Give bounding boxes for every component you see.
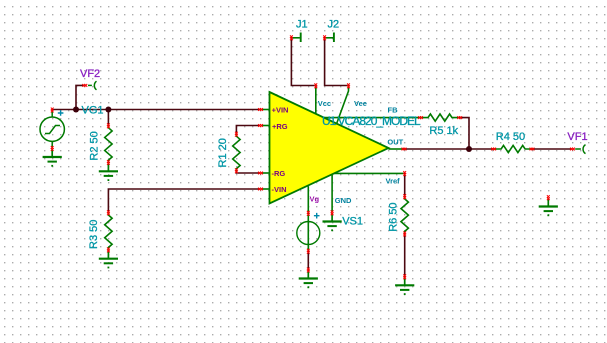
svg-text:R5 1k: R5 1k xyxy=(429,125,458,137)
pin -RG stub xyxy=(262,172,270,174)
wire +RG to R1 top xyxy=(236,126,259,134)
pin Vref stub xyxy=(334,172,404,174)
connection mark VG1 top xyxy=(51,108,54,113)
wire Vref to R6 xyxy=(404,173,406,196)
pin Vee stub xyxy=(336,86,348,125)
wire R5 to OUT node xyxy=(460,118,469,149)
pin +VIN stub xyxy=(262,109,270,111)
wire node VG1 to +VIN xyxy=(52,109,260,111)
jumper J1 xyxy=(292,33,301,43)
ground at R3 xyxy=(99,250,118,267)
voltage source VS1 xyxy=(297,222,320,245)
connection mark ground at GND pin xyxy=(331,210,334,215)
connection mark R3 top xyxy=(107,210,110,215)
svg-text:R6 50: R6 50 xyxy=(387,202,399,231)
pin -VIN stub xyxy=(262,188,270,190)
junction node R2/VG1 xyxy=(105,107,111,113)
resistor R5 xyxy=(421,114,460,121)
svg-text:+VIN: +VIN xyxy=(272,106,289,115)
junction node VF2/VG1 xyxy=(73,107,79,113)
svg-text:+RG: +RG xyxy=(272,122,288,131)
svg-text:-VIN: -VIN xyxy=(272,185,287,194)
connection mark pin +RG xyxy=(258,124,263,127)
ground at R6 xyxy=(395,277,414,294)
svg-text:OUT: OUT xyxy=(387,137,403,146)
svg-text:Vg: Vg xyxy=(310,194,320,203)
connection mark R1 top xyxy=(235,132,238,137)
pin Vg stub xyxy=(307,186,309,251)
voltage probe VF2 xyxy=(88,81,97,90)
wire -VIN to R3 xyxy=(108,189,259,212)
ground at VS1 xyxy=(299,270,318,287)
svg-text:VS1: VS1 xyxy=(342,216,363,228)
connection mark J1 xyxy=(290,35,293,40)
connection mark R4 left xyxy=(491,148,496,151)
resistor R1 xyxy=(233,134,240,171)
wire J1 to Vcc xyxy=(291,38,315,86)
wire VS1 to ground xyxy=(307,252,309,270)
connection mark ground at R6 xyxy=(403,274,406,279)
connection mark R5 left xyxy=(418,116,423,119)
svg-text:-RG: -RG xyxy=(272,169,286,178)
ground at R2 xyxy=(99,163,118,180)
op-amp U1 body xyxy=(270,92,389,204)
wire VF2 probe branch xyxy=(76,85,84,109)
connection mark R2 top xyxy=(107,123,110,128)
connection mark pin Vref xyxy=(403,171,406,176)
connection mark VG1 bottom xyxy=(51,146,54,151)
connection mark VS1 bottom xyxy=(307,249,310,254)
svg-text:GND: GND xyxy=(335,196,352,205)
connection mark pin Vcc xyxy=(314,83,317,88)
svg-text:Vcc: Vcc xyxy=(318,99,331,108)
junction node FB/OUT xyxy=(466,146,472,152)
connection mark probe VF2 xyxy=(82,84,87,87)
wire node VG1 to R2 xyxy=(107,110,109,126)
connection mark pin OUT xyxy=(402,148,407,151)
connection mark R4 right xyxy=(530,148,535,151)
pin +RG stub xyxy=(262,125,270,127)
connection mark ground near VF1 xyxy=(547,195,550,200)
resistor R4 xyxy=(494,145,533,152)
connection mark R1 bottom xyxy=(235,168,238,173)
connection mark R5 right xyxy=(457,116,462,119)
connection mark R6 top xyxy=(403,194,406,199)
svg-text:VF1: VF1 xyxy=(567,131,587,143)
ground at VG1 xyxy=(43,149,62,166)
wire R6 to ground xyxy=(404,234,406,277)
connection mark pin -RG xyxy=(258,172,263,175)
resistor R6 xyxy=(401,197,408,234)
connection mark J2 xyxy=(323,35,326,40)
connection mark R3 bottom xyxy=(107,247,110,252)
svg-text:VF2: VF2 xyxy=(80,68,100,80)
pin OUT stub xyxy=(389,148,404,150)
svg-text:Vee: Vee xyxy=(354,99,367,108)
pin FB stub xyxy=(323,117,420,119)
pin Vcc stub xyxy=(315,86,317,114)
voltage generator VG1 xyxy=(40,111,64,149)
svg-text:J2: J2 xyxy=(328,19,340,31)
resistor R2 xyxy=(105,126,112,163)
svg-text:R3 50: R3 50 xyxy=(88,220,100,249)
polarity plus of VS1 xyxy=(314,213,320,219)
wire R1 bottom to -RG xyxy=(236,171,259,173)
svg-text:U1 VCA820_MODEL: U1 VCA820_MODEL xyxy=(322,114,421,128)
ground near VF1 xyxy=(539,198,558,215)
connection mark R2 bottom xyxy=(107,160,110,165)
svg-text:VG1: VG1 xyxy=(82,105,104,117)
connection mark pin -VIN xyxy=(258,188,263,191)
connection mark pin +VIN xyxy=(258,108,263,111)
jumper J2 xyxy=(325,33,334,43)
connection mark probe VF1 xyxy=(570,148,575,151)
svg-text:FB: FB xyxy=(388,105,399,114)
svg-text:R2 50: R2 50 xyxy=(89,131,101,160)
svg-text:R1 20: R1 20 xyxy=(217,138,229,167)
voltage probe VF1 xyxy=(575,145,585,154)
svg-text:Vref: Vref xyxy=(386,177,401,186)
wire R4 to VF1 probe xyxy=(532,148,571,150)
svg-text:J1: J1 xyxy=(296,19,308,31)
ground at GND pin xyxy=(323,213,342,230)
wire OUT to R4 xyxy=(404,148,493,150)
connection mark ground at VS1 xyxy=(307,268,310,273)
pin GND stub xyxy=(331,175,333,213)
resistor R3 xyxy=(105,213,112,250)
svg-text:R4 50: R4 50 xyxy=(496,131,525,143)
wire J2 to Vee xyxy=(325,38,348,86)
connection mark R6 bottom xyxy=(403,231,406,236)
connection mark pin Vee xyxy=(347,83,350,88)
polarity plus of VG1 xyxy=(58,110,64,116)
connection mark pin Vg / VS1 top xyxy=(307,211,310,216)
